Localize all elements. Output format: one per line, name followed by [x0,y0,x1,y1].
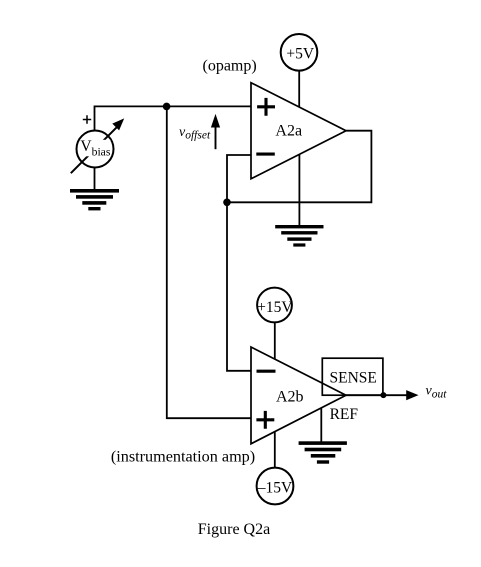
op-amp A2b [251,347,346,444]
wire: REF pin to ground [320,408,322,441]
wire: A2a V- pin to ground [298,155,300,226]
svg-text:A2b: A2b [276,388,304,405]
source Vbias [77,131,114,168]
supply +5V [281,34,318,71]
svg-text:(instrumentation amp): (instrumentation amp) [111,448,255,466]
minus input symbol A2b [257,370,276,373]
svg-text:REF: REF [330,406,359,423]
wire: A2b output [346,394,407,396]
SENSE box [322,358,383,395]
svg-text:SENSE: SENSE [330,369,377,386]
wire: Vbias top to A2a + input [95,106,252,130]
wire: +5V to A2a [298,71,300,107]
wire: A2a - input to feedback node [227,155,251,371]
wire: A2b to -15V [274,432,276,468]
ground: below REF [299,441,347,463]
supply -15V [257,468,294,505]
svg-text:(opamp): (opamp) [202,58,256,75]
voffset arrow [215,126,217,149]
node: output junction [380,392,386,398]
svg-text:Figure Q2a: Figure Q2a [198,521,270,538]
svg-text:+15V: +15V [257,299,293,316]
svg-text:+5V: +5V [286,45,314,62]
node: feedback junction [223,199,231,207]
node: junction of Vbias wire and left rail [163,103,171,111]
wire: +15V to A2b [274,322,276,359]
supply +15V [257,288,292,323]
variable-source arrow of Vbias [71,126,118,173]
op-amp A2a [251,83,346,179]
svg-text:–15V: –15V [257,479,293,496]
wire: left rail down to A2b + input [167,106,251,418]
ground: below A2a [275,225,323,247]
wire: Vbias bottom to ground [94,168,96,190]
vout arrowhead [406,390,418,400]
ground: below Vbias [70,189,119,210]
wire: A2a output and feedback [227,131,371,203]
plus input symbol A2b [256,411,274,429]
plus polarity mark [83,115,91,123]
minus input symbol A2a [256,153,275,156]
plus input symbol A2a [257,98,275,116]
svg-text:A2a: A2a [275,123,302,140]
